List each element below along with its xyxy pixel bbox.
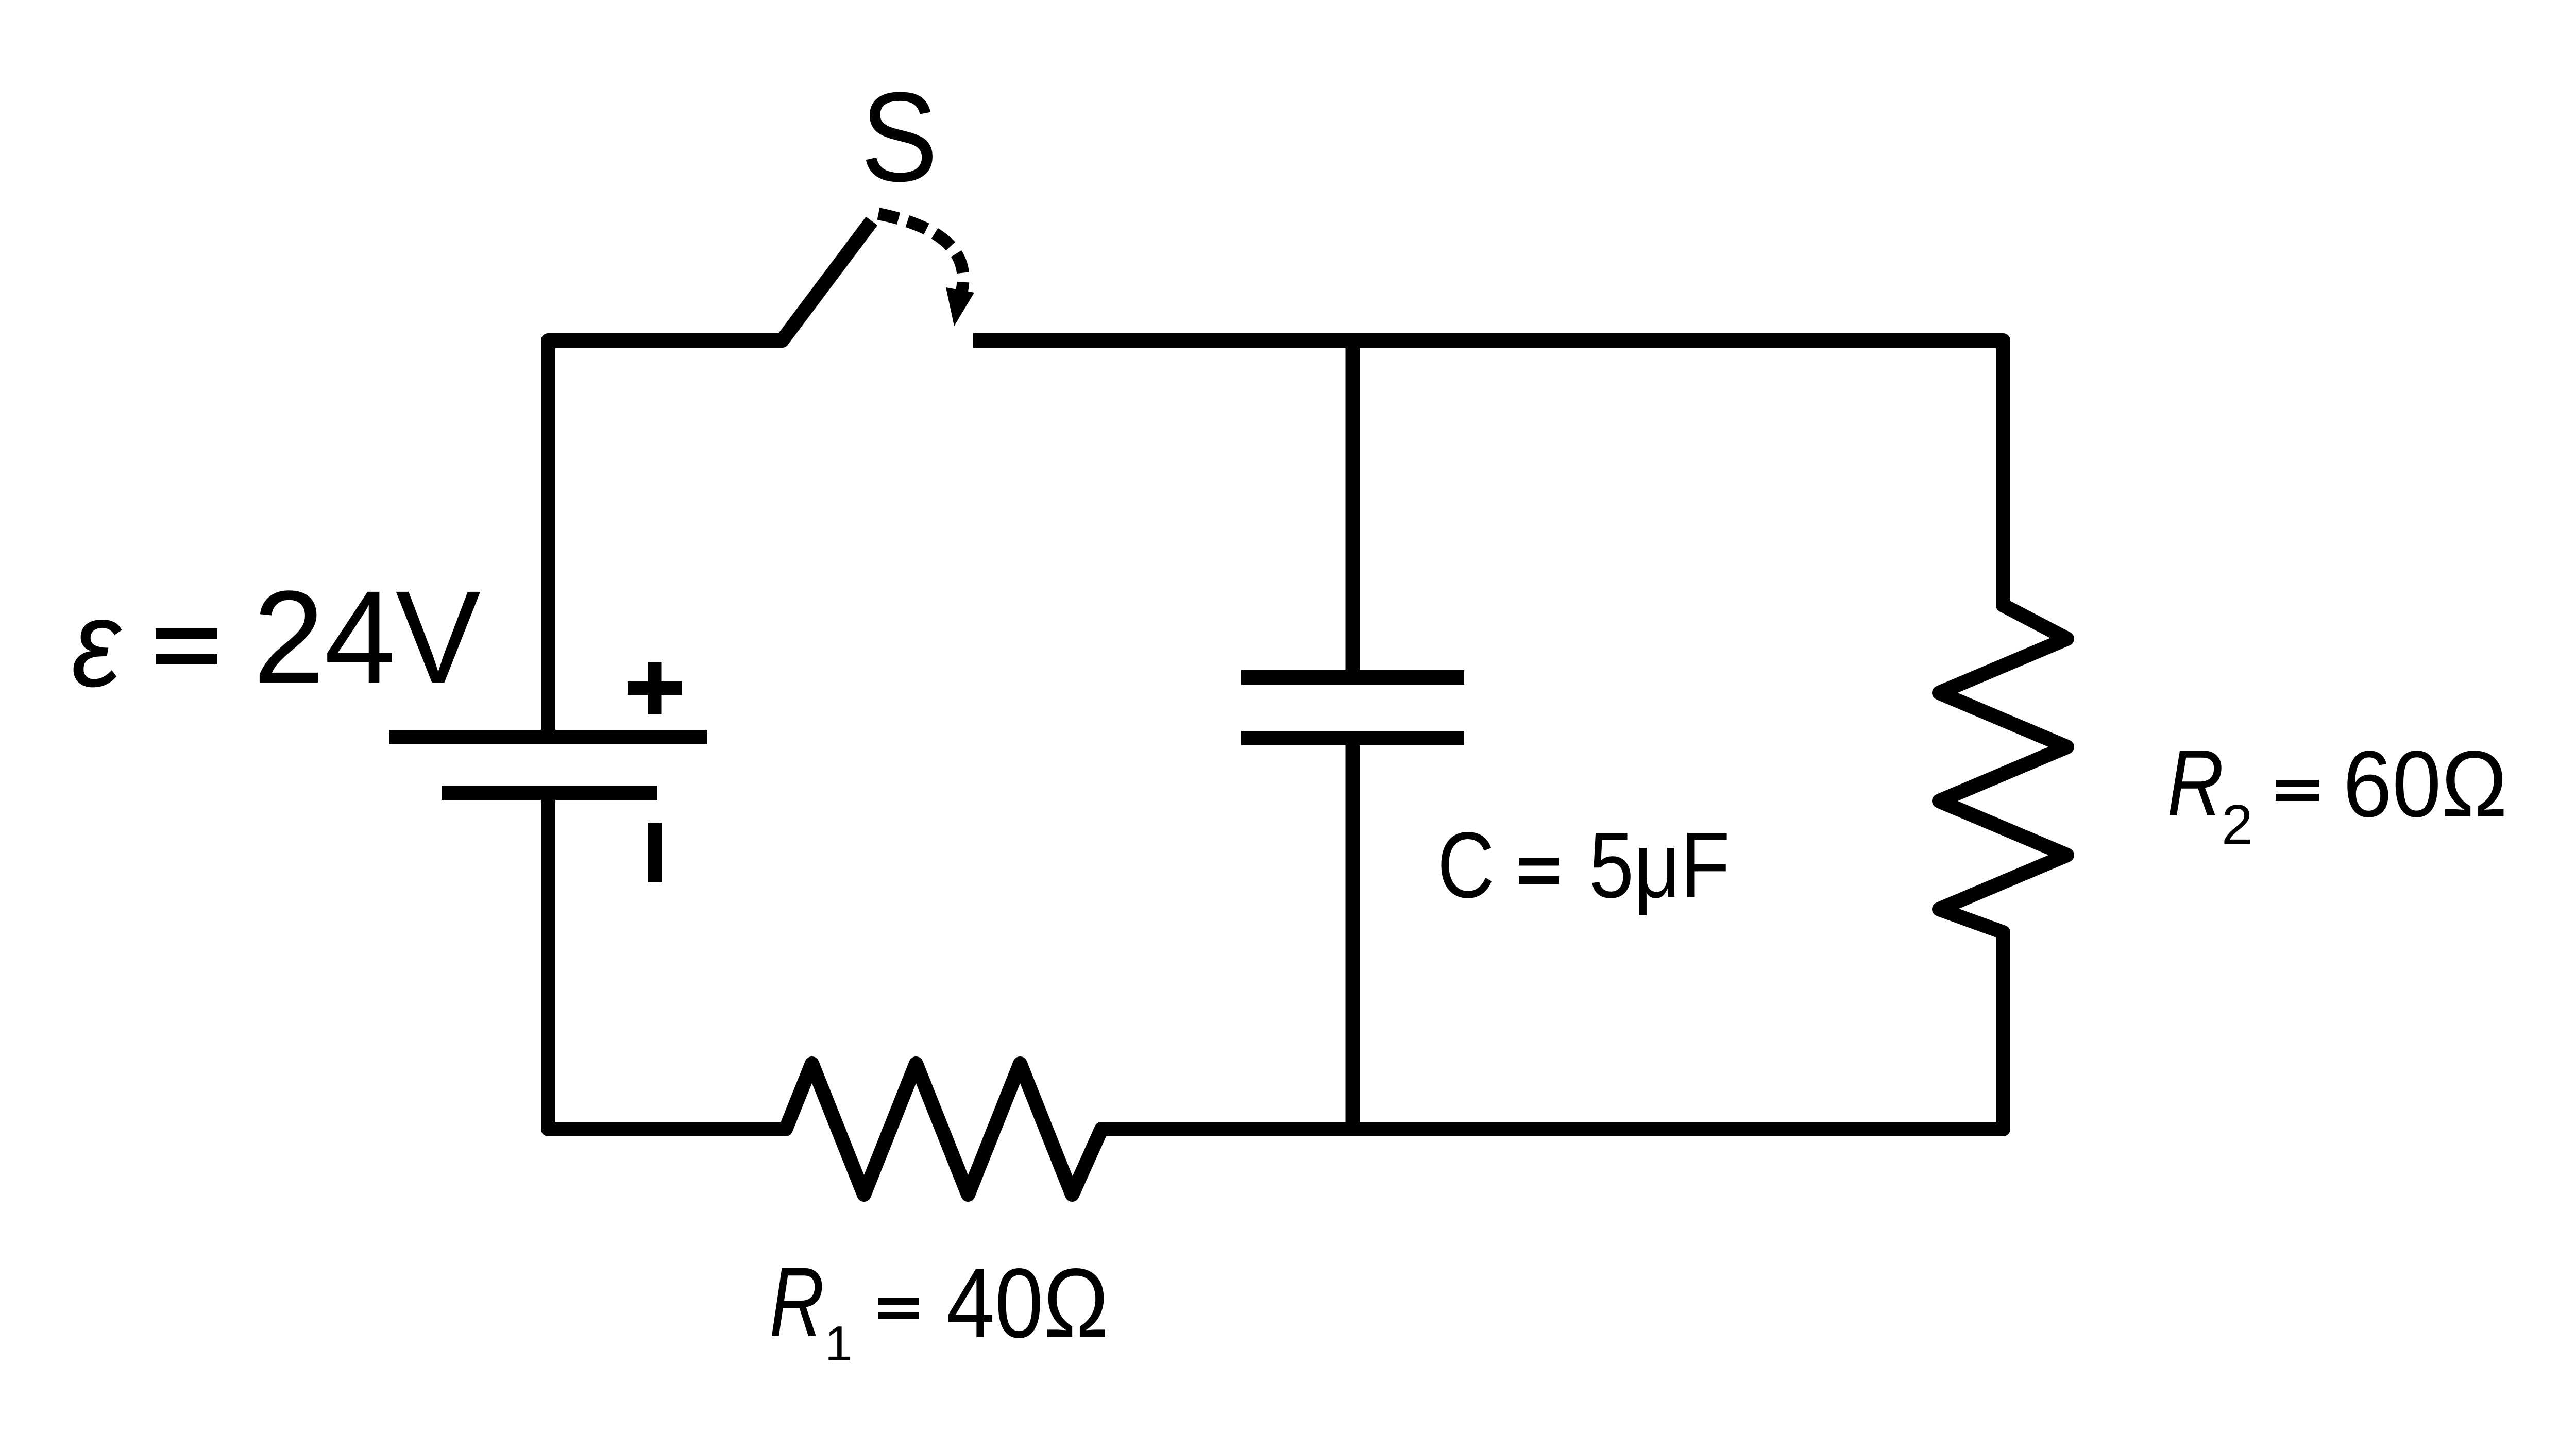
equals sign of emf label xyxy=(156,628,217,639)
svg-text:C: C xyxy=(1437,813,1495,917)
battery B1 short (-) plate xyxy=(442,786,657,800)
battery plus polarity mark xyxy=(628,662,682,714)
capacitor C bottom plate xyxy=(1241,731,1464,745)
wire from switch right contact along top wire to top-right corner, down to resistor R2 xyxy=(973,340,2003,592)
junction node of capacitor branch with top wire xyxy=(1346,333,1360,348)
resistor R1 zigzag element xyxy=(747,1064,1159,1195)
switch S lever arm (open, hinged at left contact) xyxy=(761,221,872,340)
wire from top-wire junction node down to capacitor C top plate xyxy=(1346,340,1360,677)
equals sign of R1 label xyxy=(878,1298,919,1305)
svg-text:ε: ε xyxy=(72,574,122,712)
svg-text:40Ω: 40Ω xyxy=(946,1248,1109,1358)
svg-text:5μF: 5μF xyxy=(1589,813,1730,917)
svg-text:R: R xyxy=(2167,730,2224,836)
svg-text:24V: 24V xyxy=(253,564,481,711)
equals sign of R2 label xyxy=(2276,780,2319,787)
battery B1 long (+) plate xyxy=(389,730,707,744)
svg-text:1: 1 xyxy=(825,1316,852,1371)
wire from capacitor C bottom plate down to bottom-wire junction node xyxy=(1346,738,1360,1129)
equals sign of C label xyxy=(1519,858,1559,866)
resistor R2 zigzag element xyxy=(1939,567,2067,979)
switch S dashed motion arc xyxy=(878,214,963,300)
svg-text:R: R xyxy=(769,1247,824,1357)
wire from battery - plate down to bottom-left corner, right to resistor R1 xyxy=(548,793,747,1129)
wire from resistor R1 right lead along bottom to bottom-right corner, up to resistor R2 xyxy=(1108,953,2003,1129)
switch S arc arrowhead xyxy=(946,287,974,326)
junction node of capacitor branch with bottom wire xyxy=(1346,1122,1360,1136)
wire from switch pivot left along top, down left side to battery + plate xyxy=(548,340,782,730)
svg-text:60Ω: 60Ω xyxy=(2343,731,2507,837)
svg-text:2: 2 xyxy=(2222,793,2253,856)
battery minus polarity mark (vertical tick) xyxy=(648,823,662,882)
capacitor C top plate xyxy=(1241,670,1464,685)
svg-text:S: S xyxy=(861,66,938,208)
